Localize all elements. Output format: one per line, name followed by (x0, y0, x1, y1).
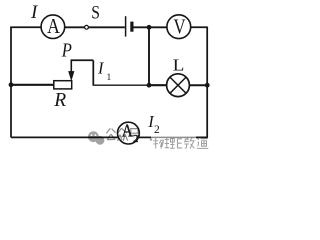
junction node battery-voltmeter (147, 25, 152, 30)
lamp L circle (167, 74, 190, 97)
wire middle vertical battery junction to lamp junction (148, 27, 150, 85)
ammeter A1 circle (41, 15, 65, 39)
battery short thick plate (130, 22, 133, 32)
wire A2 to watermark start (139, 136, 151, 138)
wire bottom left to ammeter A2 (11, 136, 118, 138)
watermark separator dot (150, 138, 152, 140)
wire bottom right corner (196, 136, 208, 138)
junction node lamp-right (205, 83, 210, 88)
wire lamp to right vertical (189, 84, 207, 86)
wire lamp junction to lamp (149, 84, 167, 86)
wire bottom under watermark (greyed by stamp) (151, 136, 196, 138)
wire top-left horizontal to ammeter (10, 26, 41, 28)
watermark char jiao (184, 138, 194, 149)
watermark char tong (197, 138, 209, 148)
svg-text:L: L (173, 56, 185, 75)
wire left vertical (10, 27, 12, 137)
svg-text:2: 2 (154, 124, 160, 136)
wire left junction to rheostat (11, 84, 54, 86)
wire slider horizontal (71, 59, 94, 61)
watermark logo bubbles (88, 131, 104, 144)
svg-text:2: 2 (133, 133, 139, 145)
rheostat slider arrow P (69, 60, 74, 81)
svg-text:I: I (30, 2, 39, 23)
wire right vertical (206, 27, 208, 138)
svg-text:R: R (53, 90, 66, 111)
svg-text:S: S (91, 2, 100, 23)
wire I1 branch horizontal to lamp junction (93, 84, 149, 86)
watermark char li (165, 138, 175, 148)
switch S terminal dot (85, 25, 89, 29)
junction node left-rheostat (9, 82, 14, 87)
label I1 current (97, 58, 112, 82)
label I2 current (147, 112, 160, 136)
svg-text:I: I (97, 58, 105, 77)
junction node lamp-left (147, 83, 152, 88)
svg-text:V: V (174, 16, 186, 39)
watermark char gong (106, 128, 115, 139)
wire ammeter to switch to battery (65, 26, 125, 28)
battery long plate (125, 16, 127, 36)
watermark char zhong (117, 128, 127, 141)
svg-text:1: 1 (107, 73, 112, 83)
svg-text:P: P (61, 39, 72, 61)
voltmeter V circle (167, 15, 191, 39)
ammeter A2 circle (117, 122, 139, 144)
wire I1 branch vertical (92, 60, 94, 85)
rheostat R body (54, 81, 72, 89)
watermark char E (177, 139, 182, 148)
svg-text:A: A (47, 15, 60, 39)
lamp cross (170, 77, 186, 93)
watermark char wu (153, 138, 163, 149)
wire voltmeter to right corner (191, 26, 208, 28)
watermark char hao (129, 129, 140, 142)
svg-text:A: A (122, 120, 133, 140)
wire battery to voltmeter (134, 26, 168, 28)
